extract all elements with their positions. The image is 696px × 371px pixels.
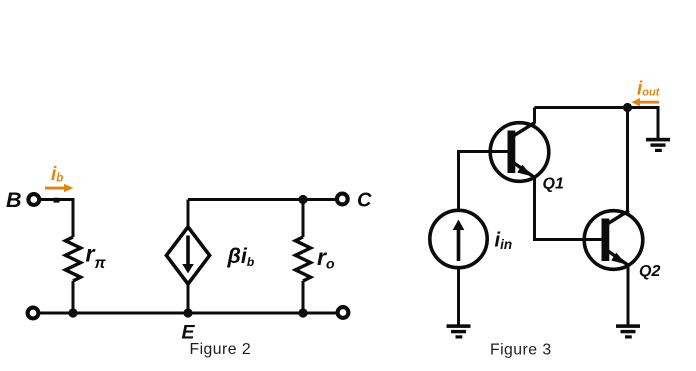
ground under i_in (447, 324, 471, 338)
wire Q1 emitter to Q2 base (535, 177, 602, 240)
wire bottom rail (40, 312, 336, 315)
wire Q2 collector up to junction (626, 108, 629, 212)
wire r_pi bottom (72, 281, 75, 313)
dependent source beta*i_b diamond (166, 227, 209, 284)
wire r_o bottom lead (302, 281, 305, 313)
current arrow i_out (632, 98, 660, 106)
wire top rail fig3 (535, 106, 659, 109)
dependent source arrow (182, 236, 194, 274)
transistor Q1 circle (490, 123, 549, 182)
svg-text:B: B (6, 188, 22, 212)
transistor Q2 emitter line (608, 251, 629, 266)
ground under Q2 (616, 324, 640, 338)
node C terminal (337, 194, 348, 205)
svg-text:Figure 2: Figure 2 (190, 341, 252, 358)
transistor Q2 emitter arrowhead (611, 253, 626, 265)
transistor Q2 circle (584, 211, 643, 270)
svg-text:C: C (357, 190, 372, 212)
transistor Q1 emitter arrowhead (517, 165, 532, 177)
svg-text:Figure 3: Figure 3 (490, 342, 552, 359)
resistor r_o (295, 237, 310, 281)
current source i_in circle (430, 210, 487, 267)
resistor r_pi (65, 237, 80, 281)
wire i_in bottom to ground (457, 268, 460, 326)
svg-text:Q2: Q2 (639, 263, 660, 280)
wire r_o top lead (302, 200, 305, 238)
transistor Q2 collector line (608, 211, 629, 224)
transistor Q1 collector line (514, 123, 535, 136)
wire diamond bottom lead (187, 284, 190, 313)
wire Q1 collector up (533, 108, 536, 124)
wire B to r_pi top (39, 200, 73, 238)
wire top rail (188, 198, 335, 201)
wire Q2 emitter down to ground (627, 265, 630, 326)
junction dot r_pi bottom (68, 308, 77, 317)
current arrow i_b (45, 184, 74, 192)
wire diamond top lead (187, 200, 190, 228)
wire rail to top-right ground (657, 106, 660, 140)
transistor Q2 base bar (602, 219, 610, 262)
node bottom-right terminal (338, 307, 349, 318)
node B terminal (28, 194, 39, 205)
node bottom-left terminal (28, 308, 39, 319)
junction dot r_o bottom (298, 308, 307, 317)
ground top-right (646, 138, 670, 152)
junction dot r_o top (298, 195, 307, 204)
current source i_in arrow (453, 220, 465, 261)
transistor Q1 base bar (508, 131, 516, 174)
transistor Q1 emitter line (514, 163, 535, 178)
wire joint nub on B wire (54, 198, 60, 203)
junction dot source bottom (183, 308, 192, 317)
junction dot top rail (623, 103, 632, 112)
wire i_in top to Q1 base (459, 152, 508, 211)
svg-text:Q1: Q1 (543, 176, 564, 193)
